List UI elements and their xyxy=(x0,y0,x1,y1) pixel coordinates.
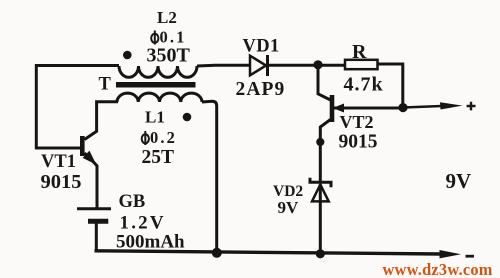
wire from VD1 to node A xyxy=(268,64,345,67)
node A junction dot xyxy=(313,60,322,69)
svg-text:350T: 350T xyxy=(147,45,191,67)
svg-text:9V: 9V xyxy=(278,198,300,217)
svg-text:VT1: VT1 xyxy=(41,152,76,172)
svg-text:www.dz3w.com: www.dz3w.com xyxy=(383,260,493,278)
svg-text:R: R xyxy=(352,41,367,63)
svg-text:1.2V: 1.2V xyxy=(120,213,166,234)
label phi 0.2 value of L1 xyxy=(142,128,177,147)
svg-text:GB: GB xyxy=(119,192,146,212)
wire L1 right end down to rail xyxy=(202,101,217,252)
wire left rail vertical xyxy=(35,64,38,149)
node E junction dot bottom rail right xyxy=(316,249,325,258)
svg-text:0.2: 0.2 xyxy=(150,128,177,147)
node phase dot L1 xyxy=(183,113,192,122)
battery GB positive plate xyxy=(77,207,111,210)
svg-text:T: T xyxy=(99,75,112,95)
battery GB negative plate xyxy=(88,219,108,224)
transformer T core bar xyxy=(116,82,196,88)
wire VD2 to bottom rail xyxy=(319,184,322,254)
svg-text:25T: 25T xyxy=(142,147,175,168)
wire top horizontal from left rail to transformer L2 xyxy=(35,64,119,67)
svg-text:L1: L1 xyxy=(145,108,165,127)
node B junction dot xyxy=(398,103,407,112)
svg-text:9015: 9015 xyxy=(41,171,82,193)
inductor L1 secondary winding xyxy=(117,93,202,102)
node D junction dot bottom rail left xyxy=(212,248,222,258)
label phi 0.1 value of L2 xyxy=(151,28,186,47)
wire VT1 base from left rail xyxy=(35,147,80,150)
wire VT2 base branch xyxy=(318,65,331,100)
diode VD1 xyxy=(250,55,268,76)
label plus sign xyxy=(467,102,476,111)
svg-text:9015: 9015 xyxy=(339,132,378,153)
wire from L2 to diode VD1 xyxy=(197,64,250,68)
zener diode VD2 xyxy=(310,178,331,202)
inductor L2 primary winding xyxy=(119,66,197,77)
transistor VT2 emitter with arrow xyxy=(334,104,403,112)
resistor R body xyxy=(345,60,378,69)
transistor VT2 collector xyxy=(320,120,330,182)
node phase dot L2 xyxy=(123,51,132,60)
svg-text:VD1: VD1 xyxy=(243,37,280,57)
svg-text:9V: 9V xyxy=(446,169,472,193)
node C junction dot on collector xyxy=(316,138,324,146)
label minus sign xyxy=(466,255,475,258)
svg-text:L2: L2 xyxy=(157,8,177,27)
transistor VT1 collector xyxy=(85,102,119,140)
arrow output plus xyxy=(440,102,463,109)
svg-text:2AP9: 2AP9 xyxy=(236,79,286,100)
wire bottom rail xyxy=(95,251,442,254)
transistor VT1 emitter with arrow xyxy=(84,152,97,208)
svg-text:500mAh: 500mAh xyxy=(116,232,185,253)
svg-text:VT2: VT2 xyxy=(340,112,374,132)
arrow output minus xyxy=(440,250,462,258)
svg-text:4.7k: 4.7k xyxy=(344,74,384,96)
wire resistor right to corner and down xyxy=(377,64,403,108)
wire battery to bottom rail xyxy=(95,224,98,252)
transistor VT1 base bar xyxy=(80,136,85,156)
wire output plus lead xyxy=(403,106,442,108)
transistor VT2 base bar xyxy=(330,95,335,122)
